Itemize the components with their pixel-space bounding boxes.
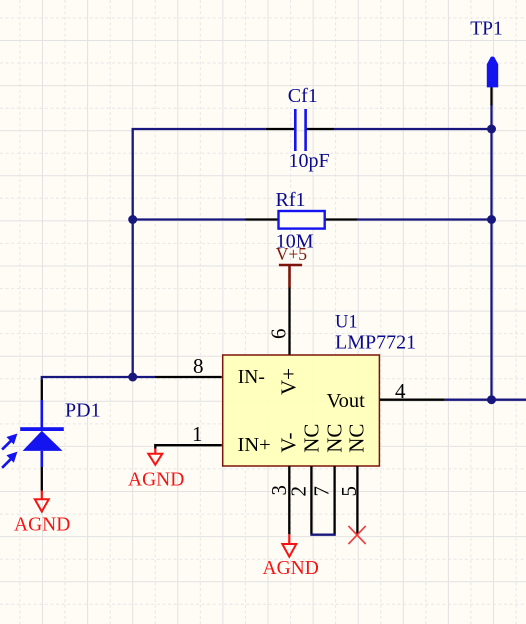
svg-text:IN+: IN+ (238, 434, 271, 456)
svg-text:IN-: IN- (238, 367, 265, 388)
svg-text:TP1: TP1 (470, 19, 503, 40)
svg-text:NC: NC (323, 424, 347, 453)
svg-text:AGND: AGND (128, 470, 184, 491)
svg-text:PD1: PD1 (65, 400, 101, 422)
svg-text:Rf1: Rf1 (276, 189, 306, 211)
svg-text:V+5: V+5 (276, 244, 308, 264)
svg-text:5: 5 (337, 486, 361, 497)
svg-text:V-: V- (277, 433, 301, 453)
svg-text:LMP7721: LMP7721 (335, 332, 416, 354)
svg-text:2: 2 (287, 486, 311, 497)
svg-text:7: 7 (310, 486, 334, 497)
svg-text:NC: NC (300, 424, 324, 453)
svg-text:Cf1: Cf1 (288, 85, 318, 107)
svg-text:V+: V+ (277, 368, 301, 395)
svg-text:AGND: AGND (14, 514, 70, 535)
svg-text:Vout: Vout (327, 390, 366, 412)
svg-text:10pF: 10pF (289, 150, 330, 172)
svg-text:8: 8 (193, 354, 204, 378)
svg-text:1: 1 (192, 422, 203, 446)
svg-text:U1: U1 (335, 313, 358, 333)
svg-text:NC: NC (345, 424, 369, 453)
svg-text:6: 6 (267, 329, 291, 340)
svg-text:4: 4 (395, 379, 406, 403)
svg-text:AGND: AGND (263, 558, 319, 579)
